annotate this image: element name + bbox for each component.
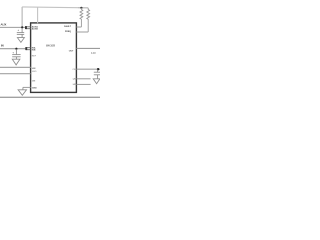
ground (C3) <box>93 79 100 84</box>
resistor R2 <box>87 8 90 32</box>
junction AUX/C1 <box>21 26 23 28</box>
wire pin LBI <box>0 66 31 68</box>
junction top rail / R1 <box>80 7 82 9</box>
svg-text:AUXB: AUXB <box>32 28 39 31</box>
background <box>0 0 100 100</box>
svg-text:MAX1626: MAX1626 <box>46 43 55 47</box>
svg-text:IN: IN <box>1 43 4 47</box>
capacitor C3 <box>94 70 100 79</box>
capacitor C1 <box>17 28 24 38</box>
svg-text:REF: REF <box>32 56 37 58</box>
op-amp U1 MAX1626 body <box>31 23 77 93</box>
junction IN/C2 <box>15 48 17 50</box>
wire V+ riser <box>37 7 39 23</box>
ground (C1) <box>17 38 24 43</box>
wire pin LX2 stub <box>76 83 90 85</box>
svg-text:LBO: LBO <box>32 71 37 73</box>
wire pin LX1 stub <box>76 78 90 80</box>
pin tie IN pins <box>26 48 31 50</box>
wire AUX riser to top rail <box>21 7 23 28</box>
capacitor C2 <box>12 49 20 59</box>
svg-text:ON: ON <box>32 80 36 82</box>
svg-text:FREQ: FREQ <box>65 31 71 33</box>
svg-text:INB: INB <box>32 50 36 52</box>
wire R1 to FAULT pin <box>76 26 81 28</box>
wire top rail <box>22 7 88 8</box>
wire pin GND stub <box>23 86 31 88</box>
resistor R1 <box>80 8 83 27</box>
pin tie AUX pins <box>26 27 31 29</box>
svg-text:FAULT: FAULT <box>64 25 72 28</box>
ground (GND pin) <box>18 87 26 95</box>
junction rail/C3 <box>97 68 99 70</box>
wire bottom ground rail <box>0 96 100 98</box>
svg-text:LBI: LBI <box>32 68 36 70</box>
wire IN net <box>0 48 25 50</box>
wire OUT net <box>76 47 100 49</box>
svg-text:3.3V: 3.3V <box>91 52 96 55</box>
svg-text:GND: GND <box>32 87 37 89</box>
wire CS rail <box>76 68 100 70</box>
wire pin LBO <box>0 73 31 75</box>
wire AUX net <box>0 26 25 28</box>
svg-text:AUX: AUX <box>1 23 7 27</box>
ground (C2) <box>12 59 20 65</box>
wire R2 to FREQ pin <box>76 31 88 33</box>
svg-text:OUT: OUT <box>69 51 74 53</box>
